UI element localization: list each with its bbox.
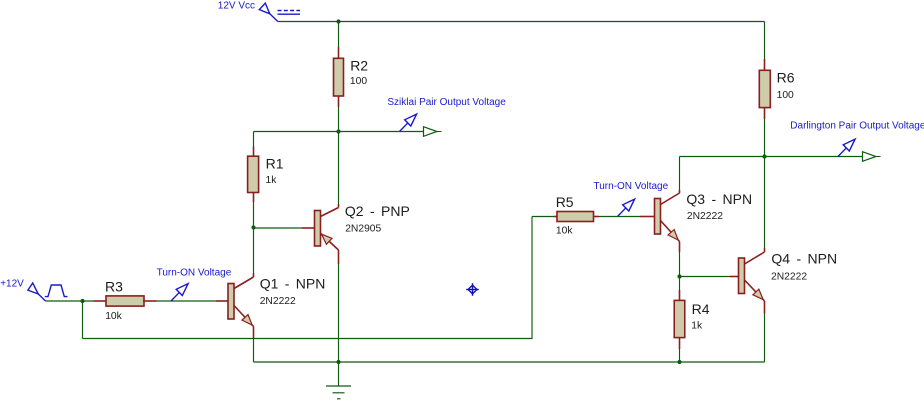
- wire Q4 emitter: [764, 301, 766, 314]
- transistor Q4 NPN: [739, 258, 745, 294]
- svg-text:R6: R6: [777, 70, 795, 86]
- junction dot Q3 emitter / R4 / Q4 base: [677, 274, 681, 278]
- junction dot Sziklai output node: [336, 129, 340, 133]
- output arrow Sziklai: [424, 127, 437, 137]
- wire Q4 collector: [764, 157, 766, 249]
- junction dot top rail / R2: [336, 19, 340, 23]
- svg-text:100: 100: [777, 90, 794, 101]
- svg-text:R2: R2: [350, 57, 368, 73]
- svg-text:R1: R1: [266, 156, 284, 172]
- wire input to R3: [46, 300, 94, 302]
- svg-text:2N2905: 2N2905: [345, 223, 381, 234]
- svg-text:R4: R4: [692, 301, 710, 317]
- wire Q2 base: [254, 227, 303, 229]
- svg-text:Q4 - NPN: Q4 - NPN: [771, 251, 837, 267]
- ground symbol: [338, 362, 340, 386]
- svg-text:R5: R5: [556, 194, 574, 210]
- wire R4 bottom lead: [679, 338, 681, 350]
- wire R4 top lead: [679, 277, 681, 291]
- resistor R4: [674, 300, 685, 337]
- svg-text:Q3 - NPN: Q3 - NPN: [686, 191, 752, 207]
- wire R2 top lead: [338, 22, 340, 48]
- wire R2 bottom lead: [338, 96, 340, 107]
- transistor Q3 NPN: [655, 199, 661, 235]
- wire Q1 collector: [253, 228, 255, 274]
- junction dot Darlington output node: [762, 154, 766, 158]
- probe Turn-ON Voltage right: [618, 208, 626, 217]
- junction dot input node: [80, 299, 84, 303]
- svg-text:2N2222: 2N2222: [260, 296, 296, 307]
- resistor R2: [334, 58, 344, 96]
- probe Darlington Pair Output Voltage: [838, 148, 846, 157]
- input source +12V symbol: [28, 283, 38, 294]
- wire Q4 base: [680, 276, 731, 278]
- wire input node down: [82, 301, 84, 339]
- wire input bottom run to R5: [83, 217, 533, 339]
- svg-text:+12V: +12V: [0, 279, 24, 290]
- editor crosshair cursor: [466, 283, 479, 296]
- svg-text:Turn-ON Voltage: Turn-ON Voltage: [157, 267, 232, 278]
- svg-text:Sziklai Pair Output Voltage: Sziklai Pair Output Voltage: [387, 97, 506, 108]
- wire Q3 emitter: [679, 242, 681, 253]
- wire Q1 base: [157, 300, 217, 302]
- svg-text:10k: 10k: [105, 311, 122, 322]
- transistor Q2 PNP: [315, 211, 321, 247]
- wire Q2 emitter to ground rail: [338, 250, 340, 264]
- svg-text:1k: 1k: [266, 175, 278, 186]
- junction dot R1 / Q2 base / Q1 collector: [251, 225, 255, 229]
- probe Sziklai Pair Output Voltage: [400, 123, 408, 132]
- svg-text:R3: R3: [105, 279, 123, 295]
- wire top supply rail: [278, 21, 765, 23]
- resistor R1: [248, 156, 259, 192]
- wire R1 top lead: [253, 132, 255, 147]
- wire R6 top lead: [764, 22, 766, 60]
- wire Darlington output rail: [680, 156, 863, 158]
- wire R6 bottom lead: [764, 108, 766, 120]
- wire Q2 collector: [338, 132, 340, 205]
- wire ground rail: [254, 361, 765, 363]
- wire Sziklai output rail: [254, 131, 424, 133]
- wire R5 to Q3 base: [594, 216, 599, 218]
- svg-text:Q2 - PNP: Q2 - PNP: [345, 203, 410, 219]
- resistor R3: [106, 296, 144, 306]
- transistor Q1 NPN: [228, 284, 234, 320]
- svg-text:100: 100: [350, 76, 367, 87]
- wire Q3 collector: [661, 193, 680, 205]
- svg-text:1k: 1k: [691, 321, 703, 332]
- output arrow Darlington: [863, 152, 876, 162]
- resistor R5: [557, 212, 594, 222]
- wire R1 bottom lead: [253, 193, 255, 203]
- svg-text:2N2222: 2N2222: [687, 211, 723, 222]
- power source 12V Vcc symbol: [259, 3, 270, 14]
- resistor R6: [759, 70, 770, 107]
- svg-text:Q1 - NPN: Q1 - NPN: [260, 275, 326, 291]
- svg-text:Turn-ON Voltage: Turn-ON Voltage: [594, 181, 669, 192]
- wire R3 to Q1 base: [143, 300, 157, 302]
- wire R5 left lead: [532, 216, 554, 218]
- svg-text:10k: 10k: [556, 225, 573, 236]
- junction dot R4 / ground rail: [677, 360, 681, 364]
- svg-text:2N2222: 2N2222: [771, 271, 807, 282]
- junction dot ground: [336, 360, 340, 364]
- svg-text:12V Vcc: 12V Vcc: [218, 1, 255, 12]
- probe Turn-ON Voltage left: [171, 292, 179, 301]
- wire Q1 emitter to ground rail: [253, 327, 255, 339]
- svg-text:Darlington Pair Output Voltage: Darlington Pair Output Voltage: [790, 121, 924, 132]
